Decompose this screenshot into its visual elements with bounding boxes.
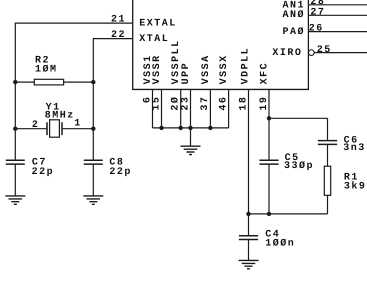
node junction C5 bottom [267,212,271,216]
node junction left R2 [13,80,17,84]
wire EXTAL pin 21 to left rail [15,23,132,160]
node junction pin 20 bus [179,126,183,130]
svg-text:VDPLL: VDPLL [241,47,252,85]
svg-text:22p: 22p [32,167,55,178]
svg-text:15: 15 [151,96,162,111]
wire AN1 pin 28 [308,4,367,6]
svg-text:22: 22 [111,30,126,41]
svg-text:3n3: 3n3 [343,143,366,154]
svg-text:33Øp: 33Øp [284,161,314,172]
wire C6 to R1 [327,144,329,166]
svg-text:XFC: XFC [259,62,270,85]
node junction right R2 [91,80,95,84]
wire bus to ground [190,128,192,146]
svg-text:ANØ: ANØ [282,10,305,21]
capacitor C5 [259,153,314,214]
svg-text:3k9: 3k9 [344,180,367,192]
node junction C4 top [246,212,250,216]
svg-text:VSSR: VSSR [152,54,163,84]
wire XTAL pin 22 to right rail [93,39,132,161]
pin 19 XFC [259,62,271,160]
svg-text:27: 27 [310,8,325,19]
IC body outline (microcontroller, partially cut off) [133,0,309,89]
node junction pin 15 bus [159,126,163,130]
resistor R2 [15,55,93,85]
svg-text:VSSX: VSSX [219,54,230,84]
node junction pin 19 [267,116,271,120]
svg-text:23: 23 [180,96,191,111]
node junction left Y1 [13,127,17,131]
pin 18 VDPLL [238,47,251,214]
svg-text:VSSA: VSSA [201,54,212,84]
wire node 19 to C6 branch [269,118,328,140]
capacitor C6 [318,135,366,154]
ground below C8 [83,196,103,204]
svg-text:26: 26 [309,24,324,35]
pin 6 VSS1 [142,54,154,128]
svg-text:1: 1 [74,119,82,130]
svg-text:46: 46 [218,96,229,111]
svg-text:1ØM: 1ØM [35,65,58,76]
capacitor C8 [84,158,132,196]
wire R1 down to bottom wire [327,195,329,214]
svg-text:PAØ: PAØ [282,27,305,38]
ground below C7 [5,196,25,204]
pin 20 VSSPLL [171,39,183,128]
svg-text:8MHz: 8MHz [45,111,75,122]
node junction right Y1 [91,127,95,131]
ground below bus [181,146,201,154]
svg-text:2: 2 [32,120,40,131]
wire ground bus under IC [153,127,229,129]
svg-text:22p: 22p [109,167,132,178]
svg-text:25: 25 [317,45,332,56]
svg-text:1ØØn: 1ØØn [265,238,295,249]
pin 15 VSSR [151,54,163,128]
resistor R1 [324,166,366,195]
svg-text:21: 21 [111,14,126,25]
capacitor C7 [6,158,54,196]
wire PA0 pin 26 [308,31,367,33]
svg-text:UPP: UPP [181,62,192,85]
svg-text:37: 37 [200,96,211,111]
svg-text:19: 19 [259,96,270,111]
inverting bubble XIRQ [308,50,314,56]
pin 37 VSSA [200,54,212,128]
wire XIRQ pin 25 [314,52,367,54]
crystal Y1 [15,103,93,138]
svg-text:XIRO: XIRO [272,48,302,59]
wire bottom horizontal XFC net [249,213,328,215]
ground below C4 [239,260,259,268]
wire AN0 pin 27 [308,14,367,16]
capacitor C4 [239,214,295,260]
svg-text:EXTAL: EXTAL [139,19,177,30]
svg-text:18: 18 [238,96,249,111]
pin 23 UPP [180,62,192,128]
node junction pin 23 bus [188,126,192,130]
svg-text:XTAL: XTAL [139,34,169,45]
node junction pin 37 bus [208,126,212,130]
pin 46 VSSX [218,54,230,128]
